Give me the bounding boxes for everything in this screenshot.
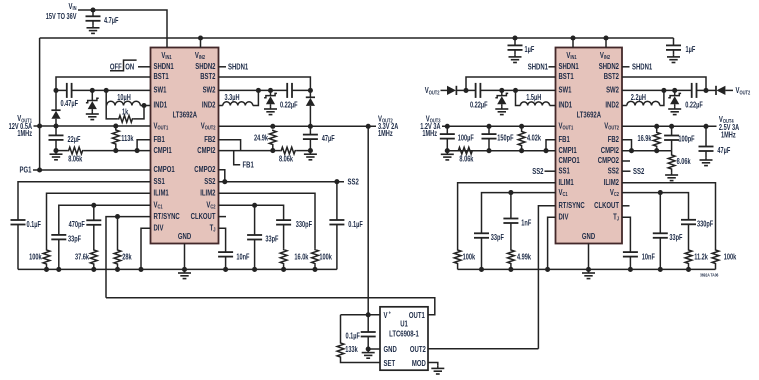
wire SW2 row right IC — [622, 89, 692, 91]
svg-text:8.06k: 8.06k — [677, 158, 691, 166]
junction BST cap node ch2 — [308, 88, 313, 93]
wire 100k to rail right a — [457, 265, 459, 270]
wire CLKOUT stub right IC — [622, 205, 630, 207]
svg-text:470pF: 470pF — [69, 221, 85, 229]
wire 47uF out4 top lead — [705, 126, 707, 146]
svg-text:1k: 1k — [122, 109, 128, 117]
resistor R 4.99k VC1 right — [508, 249, 532, 265]
svg-text:24.9k: 24.9k — [254, 135, 268, 143]
junction fb3 pin node — [543, 148, 548, 153]
svg-text:OFF: OFF — [110, 61, 122, 71]
junction 28k tap — [115, 214, 120, 219]
junction VOUT4 47uF tap — [703, 124, 708, 129]
svg-text:33pF: 33pF — [265, 236, 278, 244]
ground out4 filter — [700, 157, 713, 165]
wire 10nF to rail r — [629, 257, 631, 270]
label VOUT4 freq — [721, 132, 736, 140]
svg-text:330pF: 330pF — [296, 221, 312, 229]
label VOUT1 — [17, 113, 32, 124]
IC U3 LT3692A (right IC body) — [556, 48, 623, 244]
svg-text:113k: 113k — [121, 135, 133, 143]
svg-text:100k: 100k — [29, 254, 42, 262]
junction rail GND pin r — [586, 267, 591, 272]
junction ind node right ch2 — [661, 88, 666, 93]
svg-text:10nF: 10nF — [236, 254, 249, 262]
svg-text:LT3692A: LT3692A — [577, 110, 602, 120]
svg-text:V: V — [384, 310, 388, 320]
svg-text:ILIM1: ILIM1 — [559, 177, 574, 187]
junction fb1 pin node — [135, 148, 140, 153]
svg-text:1.5µH: 1.5µH — [526, 94, 541, 102]
label FB1 net — [243, 160, 254, 170]
wire DIV wire left IC — [141, 228, 151, 269]
junction rail 16k — [281, 267, 286, 272]
capacitor C 10nF TJ right — [623, 252, 655, 262]
junction ch2 fb node — [270, 148, 275, 153]
junction fb4 16.9k node — [654, 148, 659, 153]
wire OUT1 clock line — [106, 298, 435, 315]
junction rail 10nF — [223, 267, 228, 272]
inductor L 10uH ch1 — [107, 94, 141, 105]
svg-text:SS1: SS1 — [559, 165, 570, 175]
wire 8.06k fb4 to gnd — [671, 170, 673, 172]
label VOUT3 net — [426, 113, 441, 124]
wire 0.1uF osc drop — [367, 315, 369, 332]
wire 22uF drop — [55, 126, 57, 135]
label SS2 net at right IC SS1 — [532, 166, 543, 176]
wire 33pF VC1 to rail — [58, 239, 60, 269]
svg-text:CLKOUT: CLKOUT — [594, 200, 619, 210]
junction 1uF tap left — [512, 35, 517, 40]
wire 133k top — [340, 315, 342, 342]
wire 470pF to 37.6k — [93, 225, 95, 249]
wire 4.02k bottom lead — [521, 147, 523, 151]
wire 8.06k ch2 lead a — [273, 150, 280, 152]
svg-text:CMPI2: CMPI2 — [197, 145, 215, 155]
wire RT/SYNC row left IC — [106, 217, 151, 298]
ground input bypass — [87, 25, 100, 33]
svg-text:3692A TA06: 3692A TA06 — [700, 272, 719, 278]
wire FB1 jog — [137, 140, 150, 151]
svg-text:1µF: 1µF — [525, 46, 535, 54]
wire 8.06k lead a — [56, 150, 68, 152]
svg-text:16.9k: 16.9k — [637, 135, 651, 143]
junction rail 33pF — [56, 267, 61, 272]
svg-text:DIV: DIV — [559, 211, 569, 221]
ground catch ch2 — [264, 106, 277, 114]
wire 16.9k bottom lead — [656, 147, 658, 150]
svg-text:DIV: DIV — [154, 222, 164, 232]
junction VIN1 tap right IC — [570, 35, 575, 40]
wire SHDN2 stub left IC — [219, 66, 227, 68]
wire TJ wire right IC — [622, 217, 630, 252]
svg-text:SHDN1: SHDN1 — [228, 62, 248, 72]
svg-text:133k: 133k — [345, 346, 358, 354]
wire 0.1uF osc to gnd node — [367, 337, 369, 350]
svg-text:47µF: 47µF — [322, 135, 335, 143]
wire catch diode lead ch2 — [270, 90, 272, 95]
wire BST1 wire — [56, 77, 151, 90]
capacitor C 33pF VC2 left — [247, 235, 278, 244]
diode boost ch1 (BST1 from VOUT1) — [51, 110, 60, 119]
capacitor C 100uF out3 — [440, 134, 474, 143]
label VOUT1 rating — [9, 123, 32, 131]
wire 3.3uH lead — [219, 105, 223, 107]
svg-text:2.2µH: 2.2µH — [631, 94, 646, 102]
junction fb1 node — [113, 148, 118, 153]
svg-text:100k: 100k — [463, 254, 476, 262]
wire 22uF to fb row — [55, 140, 57, 151]
wire SS2 row left IC — [219, 181, 345, 183]
wire left ground rail — [18, 268, 337, 270]
wire GND pin drop left IC — [184, 244, 186, 270]
junction BST node right ch2 — [703, 88, 708, 93]
wire GND wire U1 — [368, 348, 380, 350]
label VOUT2 feed left — [425, 85, 440, 96]
junction out1 gnd node — [53, 148, 58, 153]
wire boost diode ch2 top — [309, 90, 311, 97]
wire 16.9k top lead — [656, 126, 658, 131]
label VOUT2 rating — [378, 123, 398, 131]
wire diode to bst node — [457, 89, 466, 91]
junction PG1 pullup node — [37, 167, 42, 172]
junction VC1 1nF tap — [508, 190, 513, 195]
wire ILIM2 wire left IC — [219, 193, 316, 248]
label SHDN1 net at left IC SHDN2 — [228, 62, 248, 72]
wire RT/SYNC drop right IC — [538, 206, 555, 349]
capacitor C 22uF out1 — [49, 135, 81, 144]
wire MOD wire — [428, 363, 438, 366]
wire 1nF drop — [510, 193, 512, 219]
resistor R 113k fb1 high — [112, 129, 133, 145]
wire FB1 net label stub — [234, 151, 241, 165]
svg-text:1MHz: 1MHz — [378, 130, 393, 138]
svg-text:BST1: BST1 — [154, 71, 169, 81]
svg-text:0.22µF: 0.22µF — [685, 102, 703, 110]
capacitor C 0.22uF boost ch2 — [280, 83, 298, 110]
junction V+ node — [366, 312, 371, 317]
capacitor C 100pF ff4 — [664, 136, 695, 144]
svg-text:1nF: 1nF — [521, 220, 531, 228]
wire 33pF VC2 to rail — [254, 240, 256, 270]
wire VIN bypass drop — [92, 10, 94, 16]
wire VOUT2 to oscillator V+ — [367, 126, 369, 314]
svg-text:0.1µF: 0.1µF — [348, 221, 362, 229]
resistor R 100k ILIM2 right — [712, 249, 736, 265]
resistor R 8.06k fb1 low — [68, 147, 84, 163]
wire OUT2 line — [428, 348, 538, 350]
junction VOUT3 4.02k tap — [519, 124, 524, 129]
wire 2.2uH lead — [622, 105, 627, 107]
svg-text:SHDN2: SHDN2 — [599, 61, 619, 71]
wire 47uF top lead — [309, 126, 311, 134]
ground fb4 ground — [665, 172, 678, 180]
junction SW1 catch diode node — [90, 88, 95, 93]
wire CLKOUT stub left IC — [219, 216, 227, 218]
svg-text:ILIM2: ILIM2 — [200, 187, 215, 197]
svg-text:0.22µF: 0.22µF — [470, 102, 488, 110]
label VOUT4 rating — [719, 124, 739, 132]
svg-text:4.99k: 4.99k — [517, 254, 531, 262]
svg-text:FB2: FB2 — [608, 134, 619, 144]
capacitor C 0.1uF SS2 — [329, 220, 362, 229]
wire 4.7uF to ground — [92, 21, 94, 25]
svg-text:8.06k: 8.06k — [279, 156, 293, 164]
label SHDN1 net at right IC SHDN2 — [632, 62, 652, 72]
svg-text:100pF: 100pF — [678, 136, 694, 144]
svg-text:BST2: BST2 — [200, 71, 215, 81]
svg-text:SHDN1: SHDN1 — [154, 61, 174, 71]
resistor R 8.06k fb4 low — [668, 154, 691, 170]
wire boost diode top lead — [55, 90, 57, 110]
svg-text:GND: GND — [178, 231, 191, 241]
svg-text:SS1: SS1 — [154, 176, 165, 186]
svg-text:1µF: 1µF — [686, 46, 696, 54]
wire CMPO2 jog to SS2 — [219, 170, 225, 182]
junction VOUT1 filter tap — [53, 123, 58, 128]
ground ch2 fb ground — [304, 152, 317, 160]
wire 33pF VC2 right drop — [659, 193, 661, 234]
ground MOD ground — [431, 366, 444, 374]
capacitor C 10nF TJ left — [218, 252, 249, 262]
svg-text:SHDN1: SHDN1 — [632, 62, 652, 72]
junction SS2 cap tap — [334, 179, 339, 184]
inductor L 3.3uH ch2 — [223, 94, 253, 105]
wire VOUT1 vertical rail — [39, 38, 41, 170]
junction fb3 150pF node — [486, 148, 491, 153]
capacitor C 47uF out2 — [303, 135, 335, 144]
junction ind node right ch1 — [513, 88, 518, 93]
junction fb3 4.02k node — [519, 148, 524, 153]
wire 3.3uH up to SW2 — [253, 90, 259, 105]
junction rail 10nF r — [628, 267, 633, 272]
wire ILIM1 wire right IC — [458, 183, 556, 249]
junction catch node right ch2 — [672, 88, 677, 93]
wire 8.06k fb4 top lead — [671, 151, 673, 154]
junction fb4 pin node — [629, 148, 634, 153]
label VOUT2 feed right — [736, 85, 751, 96]
wire catch gnd lead right ch2 — [674, 104, 676, 106]
svg-text:FB1: FB1 — [154, 134, 165, 144]
junction VOUT2 24.9k tap — [270, 124, 275, 129]
junction VIN bypass node — [90, 7, 95, 12]
wire 24.9k bottom lead — [272, 146, 274, 151]
junction out3 gnd node — [445, 148, 450, 153]
wire BST1 wire right IC — [466, 77, 556, 90]
wire 330pF to 16k — [283, 225, 285, 249]
resistor R 16.0k VC2 left — [280, 249, 308, 265]
wire TJ wire left IC — [219, 228, 226, 252]
junction rail 33pF vc2 — [252, 267, 257, 272]
svg-text:SS2: SS2 — [608, 165, 619, 175]
wire 28k drop — [117, 217, 119, 249]
junction rail DIV r — [545, 267, 550, 272]
svg-text:0.1µF: 0.1µF — [345, 333, 359, 341]
junction BST node right ch1 — [463, 88, 468, 93]
pin labels U1 — [384, 310, 426, 368]
wire inductor out to IND1 — [140, 105, 150, 107]
junction VC2 branch right IC — [658, 190, 663, 195]
svg-text:1MHz: 1MHz — [17, 130, 32, 138]
capacitor C 33pF VC2 right — [653, 233, 683, 242]
wire 100pF bottom lead — [671, 140, 673, 151]
resistor R 1k damping — [118, 109, 134, 123]
svg-text:150pF: 150pF — [497, 135, 513, 143]
junction SW2 catch node — [268, 88, 273, 93]
wire boost diode bottom lead — [55, 119, 57, 126]
wire 33pF to rail right — [481, 238, 483, 270]
junction VOUT1 divider tap — [113, 123, 118, 128]
svg-text:28k: 28k — [122, 254, 132, 262]
wire VC1 row — [59, 205, 151, 235]
ground right IC ground — [582, 270, 595, 278]
label SS2 net at right IC SS2 — [633, 166, 644, 176]
resistor R 100k ILIM1 — [29, 249, 50, 265]
wire bst cap lead — [466, 89, 476, 91]
wire bst node to diode — [706, 89, 716, 91]
wire ILIM2 wire right IC — [622, 183, 716, 249]
wire catch to gnd ch2 — [270, 104, 272, 106]
wire 1k damp right lead — [133, 106, 144, 119]
wire V+ wire — [341, 314, 381, 316]
svg-text:0.1µF: 0.1µF — [27, 221, 41, 229]
capacitor C 330pF VC2 right — [681, 220, 713, 229]
junction rail GND pin — [182, 267, 187, 272]
wire VC2 row right IC — [622, 193, 689, 220]
svg-text:FB1: FB1 — [243, 160, 254, 170]
svg-text:CMPI1: CMPI1 — [559, 145, 577, 155]
inductor L 2.2uH right ch2 — [627, 94, 660, 105]
wire VIN2 stub left IC — [200, 38, 202, 48]
wire 2.2uH up to SW2 — [660, 90, 664, 105]
resistor R 16.9k fb4 high — [637, 131, 660, 147]
junction VC1 branch — [91, 203, 96, 208]
svg-text:33pF: 33pF — [68, 236, 81, 244]
wire SW1 row right IC — [480, 89, 555, 91]
wire 16k to rail — [283, 265, 285, 270]
wire SW to inductor — [105, 90, 107, 105]
svg-text:SW1: SW1 — [154, 85, 167, 95]
wire 8.06k ch2 lead b — [296, 150, 310, 152]
IC U1 LTC6908-1 (oscillator body) — [380, 307, 428, 370]
svg-text:CMPO2: CMPO2 — [598, 155, 619, 165]
schottky diode catch ch1 left IC — [86, 98, 99, 109]
svg-text:IND2: IND2 — [605, 100, 619, 110]
svg-text:BST1: BST1 — [559, 71, 574, 81]
wire SS2 cap drop — [336, 182, 338, 220]
svg-text:8.06k: 8.06k — [459, 156, 473, 164]
wire VOUT2 to diode — [441, 89, 448, 91]
ground right 1uF — [667, 54, 680, 62]
wire 133k to SET — [341, 358, 381, 363]
junction BST cap node ch1 — [53, 88, 58, 93]
label VIN — [68, 1, 76, 12]
inductor L 1.5uH right ch1 — [520, 94, 549, 105]
junction rail 37.6k — [91, 267, 96, 272]
wire SS1 wire — [18, 182, 151, 220]
svg-text:SS2: SS2 — [532, 166, 543, 176]
svg-text:SS2: SS2 — [633, 166, 644, 176]
wire 1nF to 4.99k — [510, 223, 512, 249]
svg-text:47µF: 47µF — [717, 147, 730, 155]
junction ch2 gnd node — [308, 148, 313, 153]
capacitor C 33pF VC1 right — [474, 233, 504, 242]
schottky diode catch ch2 right IC — [668, 93, 681, 104]
diode feed ch2 right IC — [716, 86, 725, 95]
junction VOUT4 100pF tap — [669, 124, 674, 129]
wire catch anode to ground ch1 — [91, 109, 93, 111]
wire VOUT2 row — [219, 125, 377, 127]
svg-text:GND: GND — [384, 344, 397, 354]
resistor R 4.02k fb3 high — [518, 131, 541, 147]
capacitor C 0.1uF SS1 — [11, 220, 41, 229]
svg-text:16.0k: 16.0k — [294, 254, 308, 262]
junction VOUT3 150pF tap — [486, 124, 491, 129]
svg-text:ON: ON — [125, 61, 134, 71]
capacitor C 0.22uF boost right ch1 — [470, 83, 488, 110]
capacitor C 1nF VC1 right — [503, 219, 531, 228]
resistor R 24.9k fb2 high — [254, 130, 276, 146]
wire GND pin drop right IC — [588, 244, 590, 270]
junction rail DIV — [138, 267, 143, 272]
wire 100k ilim2 to rail r — [715, 265, 717, 270]
wire catch lead right ch2 — [674, 90, 676, 95]
wire FB1 jog right IC — [546, 140, 556, 151]
capacitor C 0.1uF osc — [345, 332, 375, 341]
svg-text:100k: 100k — [724, 254, 737, 262]
wire 10nF to rail — [225, 257, 227, 270]
ground out3 filter — [441, 152, 454, 160]
wire VIN1 stub right IC — [572, 38, 574, 48]
svg-text:LT3692A: LT3692A — [173, 110, 198, 120]
svg-text:8.06k: 8.06k — [68, 156, 82, 164]
svg-text:100k: 100k — [319, 254, 332, 262]
svg-text:U1: U1 — [400, 318, 408, 328]
junction VOUT2 cap tap — [308, 124, 313, 129]
junction rail 100k ilim2 — [312, 267, 317, 272]
wire BST cap lead — [56, 89, 67, 91]
wire SHDN1 stub right IC — [549, 66, 556, 68]
junction SW2 inductor node — [256, 88, 261, 93]
schottky diode catch ch2 left IC — [264, 93, 277, 104]
junction rail 11.2k — [686, 267, 691, 272]
capacitor C 330pF VC2 left — [276, 220, 312, 229]
svg-text:SS2: SS2 — [348, 177, 359, 187]
wire fb4 row — [622, 150, 672, 152]
wire diode to VOUT2 label — [725, 89, 733, 91]
wire VOUT1 row — [34, 125, 151, 127]
svg-text:15V TO 36V: 15V TO 36V — [46, 13, 77, 21]
wire catch lead right ch1 — [501, 90, 503, 95]
svg-text:IND1: IND1 — [559, 100, 573, 110]
svg-text:CMPO1: CMPO1 — [559, 155, 580, 165]
svg-text:CMPI2: CMPI2 — [601, 145, 619, 155]
junction VC2 branch left IC — [252, 203, 257, 208]
capacitor C 0.22uF boost right ch2 — [685, 83, 703, 110]
wire left 1uF to ground — [514, 50, 516, 54]
svg-text:SW2: SW2 — [606, 85, 619, 95]
svg-text:CMPO2: CMPO2 — [194, 164, 215, 174]
svg-text:IND1: IND1 — [154, 100, 168, 110]
svg-text:PG1: PG1 — [20, 165, 32, 175]
svg-text:ILIM1: ILIM1 — [154, 187, 169, 197]
svg-text:LTC6908-1: LTC6908-1 — [389, 328, 419, 338]
resistor R 8.06k fb2 low — [279, 147, 296, 164]
junction rail 33pF vc2 r — [658, 267, 663, 272]
resistor R 100k ILIM1 right — [454, 249, 475, 265]
resistor R 28k RT — [114, 249, 132, 265]
svg-text:FB2: FB2 — [204, 134, 215, 144]
